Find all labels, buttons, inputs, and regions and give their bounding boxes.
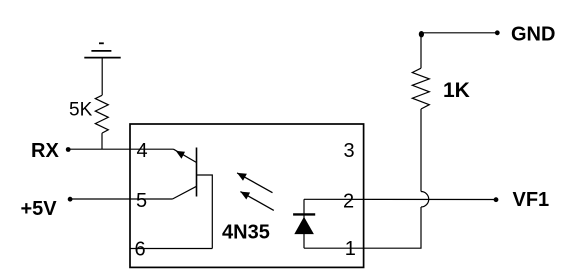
wire RX to pin 4 [68,148,173,150]
node RX [66,147,71,152]
wire ground stem to 5K [101,58,103,96]
wire pin 1 to 1K branch [304,207,421,248]
svg-text:1K: 1K [443,79,470,102]
node VF1 [494,197,499,202]
wire hop over VF1 wire [421,192,429,208]
light arrow 2 [240,192,273,211]
svg-text:3: 3 [344,140,355,162]
resistor 1K [412,68,429,109]
wire pin 6 [130,248,212,250]
light arrow 1 [237,173,272,193]
wire 5K to RX node [101,133,103,149]
svg-text:1: 1 [345,238,356,260]
svg-text:VF1: VF1 [513,189,550,211]
wire pin 2 to LED cathode and LED anode to pin 1 [303,199,305,248]
junction [419,31,424,37]
resistor 5K [95,95,108,133]
wire junction to GND [421,32,495,34]
svg-text:6: 6 [135,239,146,261]
svg-text:+5V: +5V [21,198,58,220]
svg-text:2: 2 [343,190,354,212]
LED (anode pin 1, cathode pin 2) [293,214,315,234]
svg-text:RX: RX [31,140,59,162]
svg-text:4N35: 4N35 [222,221,270,243]
wire base tap to pin 6 [197,175,213,249]
phototransistor base bar [196,148,198,197]
node GND [495,30,500,35]
phototransistor collector to pin 5 [173,186,197,199]
wire pin 2 to VF1 [304,198,494,200]
svg-text:GND: GND [511,23,555,45]
svg-text:5K: 5K [69,100,93,121]
svg-text:5: 5 [136,190,147,212]
svg-text:4: 4 [137,140,148,162]
phototransistor emitter to pin 4 [174,149,197,162]
ground [84,43,120,57]
node +5V [68,197,73,202]
optocoupler 4N35 package outline [130,124,364,267]
wire +5V to pin 5 [70,198,172,200]
wire 1K to GND corner [420,33,422,68]
wire hop to 1K [420,109,422,192]
